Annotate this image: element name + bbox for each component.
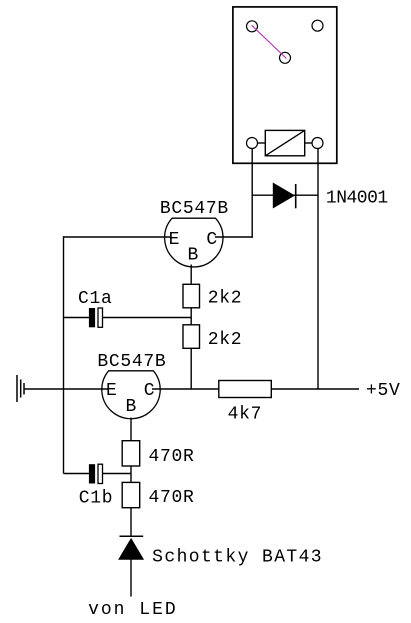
wire between R1 and R2: [190, 308, 192, 325]
wire ground to Q2 emitter: [24, 388, 108, 390]
wire R4 bottom to Schottky cathode: [130, 508, 132, 537]
wire Q2 collector to 4k7: [152, 388, 219, 390]
resistor R2 2k2: [183, 325, 200, 349]
svg-text:470R: 470R: [148, 488, 194, 508]
svg-text:+5V: +5V: [366, 381, 401, 401]
wire coil right stub: [305, 142, 312, 144]
wire diode branch horizontal: [252, 194, 318, 196]
relay K1 box: [233, 7, 337, 163]
transistor Q2 body: [102, 371, 160, 419]
wire Q1 base down: [190, 265, 192, 285]
resistor R5 4k7: [219, 381, 271, 398]
wire Schottky anode down: [130, 559, 132, 596]
resistor R3 470R: [122, 441, 140, 466]
wire relay left leg down to Q1 collector node: [251, 149, 253, 238]
left rail wire: [63, 236, 65, 473]
svg-text:C: C: [206, 230, 218, 250]
svg-text:C1b: C1b: [79, 488, 114, 508]
svg-text:2k2: 2k2: [208, 330, 243, 350]
relay coil terminal bottom-right: [312, 138, 323, 149]
ground symbol: [17, 375, 24, 402]
svg-text:B: B: [125, 397, 137, 417]
wire coil left stub: [258, 142, 266, 144]
svg-text:2k2: 2k2: [208, 288, 243, 308]
svg-text:470R: 470R: [148, 447, 194, 467]
svg-text:E: E: [169, 230, 181, 250]
wire R2 bottom down to collector node Q2: [190, 348, 192, 389]
svg-text:BC547B: BC547B: [97, 352, 166, 372]
diode D2 Schottky BAT43: [119, 536, 143, 559]
relay contact terminal top-left: [247, 21, 258, 32]
wire 4k7 to +5V: [271, 388, 359, 390]
svg-text:1N4001: 1N4001: [326, 189, 388, 209]
relay coil: [265, 130, 304, 155]
wire Q2 base down: [130, 418, 132, 441]
svg-text:C: C: [144, 381, 156, 401]
relay coil terminal bottom-left: [247, 138, 258, 149]
relay contact terminal top-right: [312, 20, 323, 31]
wire Q1 collector to relay leg: [215, 236, 253, 238]
wire Q1 emitter to left rail: [64, 236, 171, 238]
transistor Q1 body: [165, 218, 223, 267]
relay switch arm (magenta): [252, 25, 287, 58]
resistor R1 2k2: [183, 284, 200, 308]
resistor R4 470R: [122, 482, 140, 507]
wire between R3 and R4: [130, 466, 132, 482]
svg-text:Schottky BAT43: Schottky BAT43: [152, 547, 323, 567]
relay contact common terminal middle: [280, 52, 291, 63]
capacitor C1b: [64, 464, 132, 483]
svg-text:von LED: von LED: [88, 600, 178, 620]
svg-text:E: E: [106, 381, 118, 401]
wire relay right leg down to +5V rail: [317, 149, 319, 390]
svg-text:C1a: C1a: [78, 289, 113, 309]
diode D1 1N4001: [273, 183, 295, 208]
svg-text:BC547B: BC547B: [160, 199, 229, 219]
svg-text:4k7: 4k7: [228, 405, 263, 425]
capacitor C1a: [64, 308, 192, 327]
svg-text:B: B: [187, 246, 199, 266]
